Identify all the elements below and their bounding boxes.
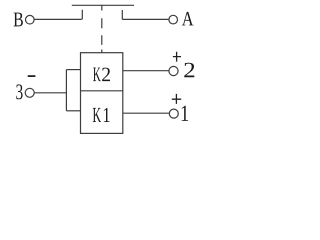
label B [14,13,23,27]
label A [182,12,194,26]
terminal 3 [25,88,34,97]
wire K1 to terminal 1 [123,112,170,114]
label 3 [16,84,22,99]
plus sign at terminal 2 [173,52,181,62]
terminal B [26,15,35,24]
switch left fixed contact [81,10,83,20]
minus sign at terminal 3 [28,75,36,77]
left bracket vertical [65,70,67,111]
stub bracket to K1 [66,110,80,112]
switch right fixed contact [121,10,123,19]
divider between K2 and K1 [81,90,123,92]
switch bar (bridging contact) [72,4,134,6]
terminal A [169,15,178,24]
wire B to left contact [34,18,82,20]
switch actuator rod [101,5,103,11]
label 2 [184,63,194,77]
mechanical linkage (dashed) [101,18,103,53]
wire right contact to A [122,18,169,20]
label K2 [93,68,110,82]
terminal 1 [169,109,178,118]
plus sign at terminal 1 [172,94,181,104]
relay box K2/K1 outline [81,53,123,134]
wire K2 to terminal 2 [123,70,169,72]
label K1 [93,108,110,122]
terminal 2 [169,66,178,75]
stub bracket to K2 [66,69,80,71]
label 1 [182,106,188,121]
wire terminal 3 to bracket [34,92,66,94]
